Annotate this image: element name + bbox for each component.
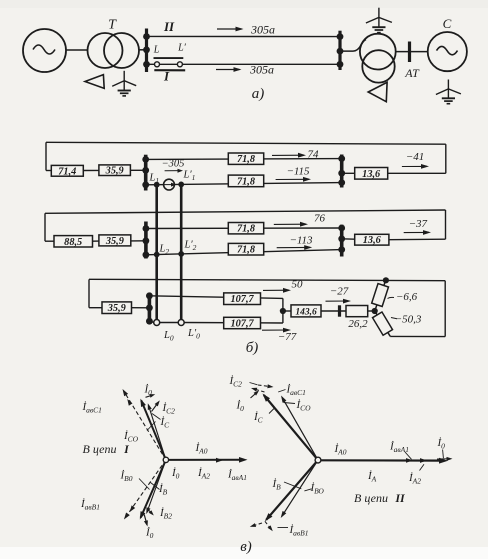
svg-text:76: 76 <box>314 213 326 225</box>
svg-text:71,8: 71,8 <box>237 245 255 256</box>
svg-text:−41: −41 <box>406 151 424 163</box>
svg-text:а): а) <box>252 86 265 102</box>
svg-text:В цепи: В цепи <box>354 491 388 505</box>
svg-text:АТ: АТ <box>404 66 420 80</box>
svg-text:35,9: 35,9 <box>105 236 124 247</box>
svg-text:−37: −37 <box>409 218 428 230</box>
svg-text:71,8: 71,8 <box>237 224 255 235</box>
svg-text:107,7: 107,7 <box>231 319 255 330</box>
svg-text:−27: −27 <box>330 286 349 298</box>
svg-text:107,7: 107,7 <box>231 294 255 305</box>
svg-text:305а: 305а <box>250 23 275 37</box>
svg-text:50: 50 <box>292 279 304 291</box>
svg-text:143,6: 143,6 <box>295 307 317 317</box>
svg-text:71,8: 71,8 <box>237 154 255 165</box>
svg-text:І: І <box>163 69 170 84</box>
svg-text:35,9: 35,9 <box>107 303 126 314</box>
svg-text:−305: −305 <box>162 159 185 170</box>
svg-text:−6,6: −6,6 <box>396 291 418 303</box>
svg-text:L′: L′ <box>177 43 187 54</box>
svg-text:71,8: 71,8 <box>237 176 255 187</box>
svg-text:−115: −115 <box>286 166 310 178</box>
svg-text:−77: −77 <box>278 331 297 343</box>
svg-text:ІІ: ІІ <box>394 491 406 505</box>
svg-text:13,6: 13,6 <box>363 235 382 246</box>
svg-text:88,5: 88,5 <box>64 237 82 248</box>
svg-text:13,6: 13,6 <box>362 169 381 180</box>
svg-text:С: С <box>443 16 452 31</box>
svg-text:74: 74 <box>308 149 320 161</box>
svg-text:L: L <box>153 45 160 56</box>
svg-text:Т: Т <box>108 18 117 33</box>
svg-text:в): в) <box>240 539 252 555</box>
svg-text:б): б) <box>246 340 259 356</box>
svg-text:−113: −113 <box>289 235 313 247</box>
svg-text:−50,3: −50,3 <box>395 314 422 326</box>
svg-text:II: II <box>163 19 175 34</box>
svg-text:305а: 305а <box>249 63 274 77</box>
svg-text:35,9: 35,9 <box>105 166 124 177</box>
svg-text:В цепи: В цепи <box>83 442 117 456</box>
svg-text:26,2: 26,2 <box>348 318 368 330</box>
svg-text:71,4: 71,4 <box>58 166 76 177</box>
